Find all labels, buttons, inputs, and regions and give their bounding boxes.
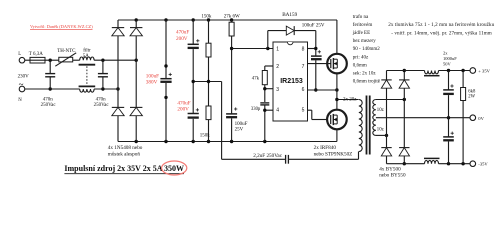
svg-text:0,6mm: 0,6mm xyxy=(353,63,367,68)
svg-text:IR2153: IR2153 xyxy=(280,78,303,85)
svg-text:jádře EE: jádře EE xyxy=(352,31,370,36)
svg-text:L: L xyxy=(18,52,21,57)
svg-text:4x 1N5408 nebo: 4x 1N5408 nebo xyxy=(108,145,143,151)
svg-text:1: 1 xyxy=(276,47,279,53)
svg-text:90 - 140mm2: 90 - 140mm2 xyxy=(353,47,380,52)
svg-text:filtr: filtr xyxy=(83,48,91,53)
svg-text:150k: 150k xyxy=(200,133,211,138)
svg-text:27k 6W: 27k 6W xyxy=(224,14,240,19)
svg-text:pri: 40z: pri: 40z xyxy=(353,55,369,60)
svg-text:2,2uF 250Vac: 2,2uF 250Vac xyxy=(253,153,283,159)
svg-text:0V: 0V xyxy=(478,116,484,121)
svg-text:trafo na: trafo na xyxy=(353,15,369,20)
svg-text:2W: 2W xyxy=(468,95,475,100)
svg-text:Vytvořil: Daněk (DANYK.WZ.CZ): Vytvořil: Daněk (DANYK.WZ.CZ) xyxy=(30,24,93,29)
svg-text:- vnitř. pr. 14mm, vněj. pr. 2: - vnitř. pr. 14mm, vněj. pr. 27mm, výška… xyxy=(391,31,492,37)
svg-text:2: 2 xyxy=(276,64,279,70)
svg-text:bez mezery: bez mezery xyxy=(353,39,376,44)
svg-text:0,6mm trojitě: 0,6mm trojitě xyxy=(353,80,381,85)
svg-text:470uF: 470uF xyxy=(176,30,189,36)
svg-text:470n: 470n xyxy=(96,98,107,103)
svg-text:feritovém: feritovém xyxy=(353,23,373,28)
svg-text:~: ~ xyxy=(19,80,24,90)
svg-text:50V: 50V xyxy=(443,62,452,67)
svg-text:3: 3 xyxy=(276,87,279,93)
svg-text:470uF: 470uF xyxy=(177,100,190,106)
svg-text:100uF: 100uF xyxy=(235,122,248,127)
svg-text:470n: 470n xyxy=(43,98,54,103)
svg-text:250Vac: 250Vac xyxy=(94,103,110,108)
svg-text:sek: 2x 10z: sek: 2x 10z xyxy=(353,72,377,77)
svg-text:Impulsní zdroj 2x 35V 2x 5A: Impulsní zdroj 2x 35V 2x 5A xyxy=(64,164,162,173)
svg-text:47k: 47k xyxy=(252,77,260,82)
svg-text:nebo STP9NK50Z: nebo STP9NK50Z xyxy=(314,152,353,158)
svg-text:-35V: -35V xyxy=(478,162,488,167)
svg-text:TH-NTC: TH-NTC xyxy=(57,49,76,54)
svg-text:2x tlumivka 75z 1 - 1,2 mm na: 2x tlumivka 75z 1 - 1,2 mm na feritovém … xyxy=(388,21,494,28)
svg-text:10z: 10z xyxy=(377,127,384,132)
svg-text:6: 6 xyxy=(302,87,305,93)
svg-text:můstek alespoň: můstek alespoň xyxy=(108,150,141,157)
svg-text:4: 4 xyxy=(276,108,279,114)
svg-text:2x 20z: 2x 20z xyxy=(343,97,357,102)
svg-text:200V: 200V xyxy=(176,36,188,42)
svg-text:5A: 5A xyxy=(83,54,90,59)
svg-text:1000uF: 1000uF xyxy=(443,56,457,61)
svg-text:2x IRF840: 2x IRF840 xyxy=(314,145,337,151)
svg-text:10z: 10z xyxy=(377,108,384,113)
svg-text:N: N xyxy=(18,98,22,103)
svg-text:nebo BY550: nebo BY550 xyxy=(379,172,406,178)
svg-text:BA159: BA159 xyxy=(282,12,297,18)
svg-text:100uF 25V: 100uF 25V xyxy=(302,23,325,28)
svg-text:2x: 2x xyxy=(443,50,448,55)
svg-text:T 6,3A: T 6,3A xyxy=(29,52,43,57)
svg-text:25V: 25V xyxy=(235,127,244,132)
svg-text:380V: 380V xyxy=(146,80,158,86)
svg-text:+ 35V: + 35V xyxy=(478,69,490,74)
svg-text:200V: 200V xyxy=(177,107,189,113)
svg-text:150k: 150k xyxy=(201,14,212,19)
svg-text:5: 5 xyxy=(302,108,305,114)
svg-text:350W: 350W xyxy=(164,164,184,173)
svg-text:7: 7 xyxy=(302,64,305,70)
svg-text:8: 8 xyxy=(302,47,305,53)
svg-text:330p: 330p xyxy=(251,107,261,112)
svg-text:250Vac: 250Vac xyxy=(41,103,57,108)
